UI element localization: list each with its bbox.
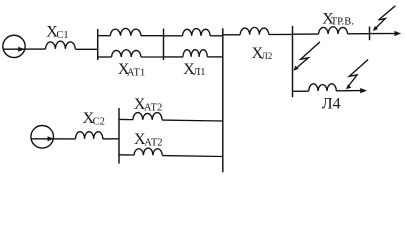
wire L4 coil to arrow (336, 90, 361, 92)
node bar 3 (292, 26, 294, 97)
svg-text:Л4: Л4 (322, 95, 341, 112)
line coil XL2 (240, 27, 269, 34)
transformer coil XTRV (319, 27, 348, 34)
wire bar3 to XTRV coil (293, 33, 319, 35)
svg-text:С2: С2 (93, 117, 105, 128)
svg-text:ТР.В.: ТР.В. (331, 16, 354, 27)
label L4 (322, 95, 341, 112)
reactor coil XC2 (76, 132, 103, 139)
label XC2 (83, 110, 105, 128)
wire bus to XL2 coil (223, 34, 240, 36)
label XAT2 bottom (134, 131, 163, 148)
node bar 1 (97, 29, 99, 60)
generator G2 (EMF source circle) (31, 126, 54, 149)
wire XL1 bottom coil to bus (207, 56, 223, 58)
node bar 2 (163, 29, 165, 61)
node tick (369, 27, 371, 41)
svg-text:АТ1: АТ1 (127, 68, 145, 79)
wire XL2 coil to bar3 (269, 33, 293, 35)
wire XC2 to bar4 (103, 138, 120, 140)
line coil L4 (309, 84, 337, 91)
lightning fault arrow K1 at tick (374, 6, 395, 30)
label XL1 (183, 61, 205, 78)
generator G1 arrow line (3, 48, 46, 50)
label XTRV (322, 11, 354, 28)
wire XAT2 bottom coil to bus (162, 155, 223, 158)
wire bottom branch bar1 to XAT1 bottom coil (98, 56, 112, 58)
generator G1 (EMF source circle) (3, 35, 25, 57)
autotransformer coil XAT2 bottom (134, 148, 162, 155)
outgoing line arrowhead (394, 31, 401, 36)
wire bar4 to XAT2 bottom coil (119, 154, 134, 156)
autotransformer coil XAT1 top (110, 28, 141, 35)
vertical bus node (222, 28, 224, 172)
wire bar4 to XAT2 top coil (119, 118, 133, 120)
label XC1 (46, 24, 68, 41)
generator G1 arrowhead (18, 47, 24, 52)
wire XC1 to node bar1 (75, 48, 98, 50)
label XL2 (252, 45, 273, 62)
lightning fault arrow K2 at bar3 (295, 42, 320, 69)
wire top branch bar2 to XL1 top coil (164, 35, 183, 37)
wire XAT1 top coil to bar2 (141, 35, 164, 37)
wire top branch bar1 to XAT1 top coil (98, 35, 111, 37)
wire XAT1 bottom coil to bar2 (141, 56, 164, 58)
generator G2 arrow line (31, 138, 76, 140)
wire XTRV coil to tick (348, 33, 370, 35)
label XAT1 (118, 61, 145, 79)
generator G2 arrowhead (48, 136, 54, 141)
line coil XL1 top (183, 29, 211, 36)
reactor coil XC1 (46, 41, 76, 49)
wire XAT2 top coil to bus (162, 119, 223, 122)
autotransformer coil XAT2 top (133, 113, 162, 120)
svg-text:АТ2: АТ2 (144, 103, 162, 114)
svg-text:Л1: Л1 (193, 67, 205, 78)
svg-text:С1: С1 (56, 30, 68, 41)
wire tick to line arrow (370, 33, 396, 35)
line coil XL1 bottom (183, 50, 207, 57)
autotransformer coil XAT1 bottom (112, 50, 142, 57)
wire bottom branch bar2 to XL1 bottom coil (164, 56, 184, 58)
label XAT2 top (134, 96, 162, 114)
L4 outgoing arrowhead (360, 88, 367, 93)
node bar 4 (118, 108, 120, 164)
lightning fault arrow K3 at L4 line (347, 60, 368, 88)
svg-text:АТ2: АТ2 (144, 137, 162, 148)
wire XL1 top coil to bus (210, 35, 223, 37)
svg-text:Л2: Л2 (262, 51, 273, 61)
branch L4 wire bar3 to coil (293, 90, 309, 92)
